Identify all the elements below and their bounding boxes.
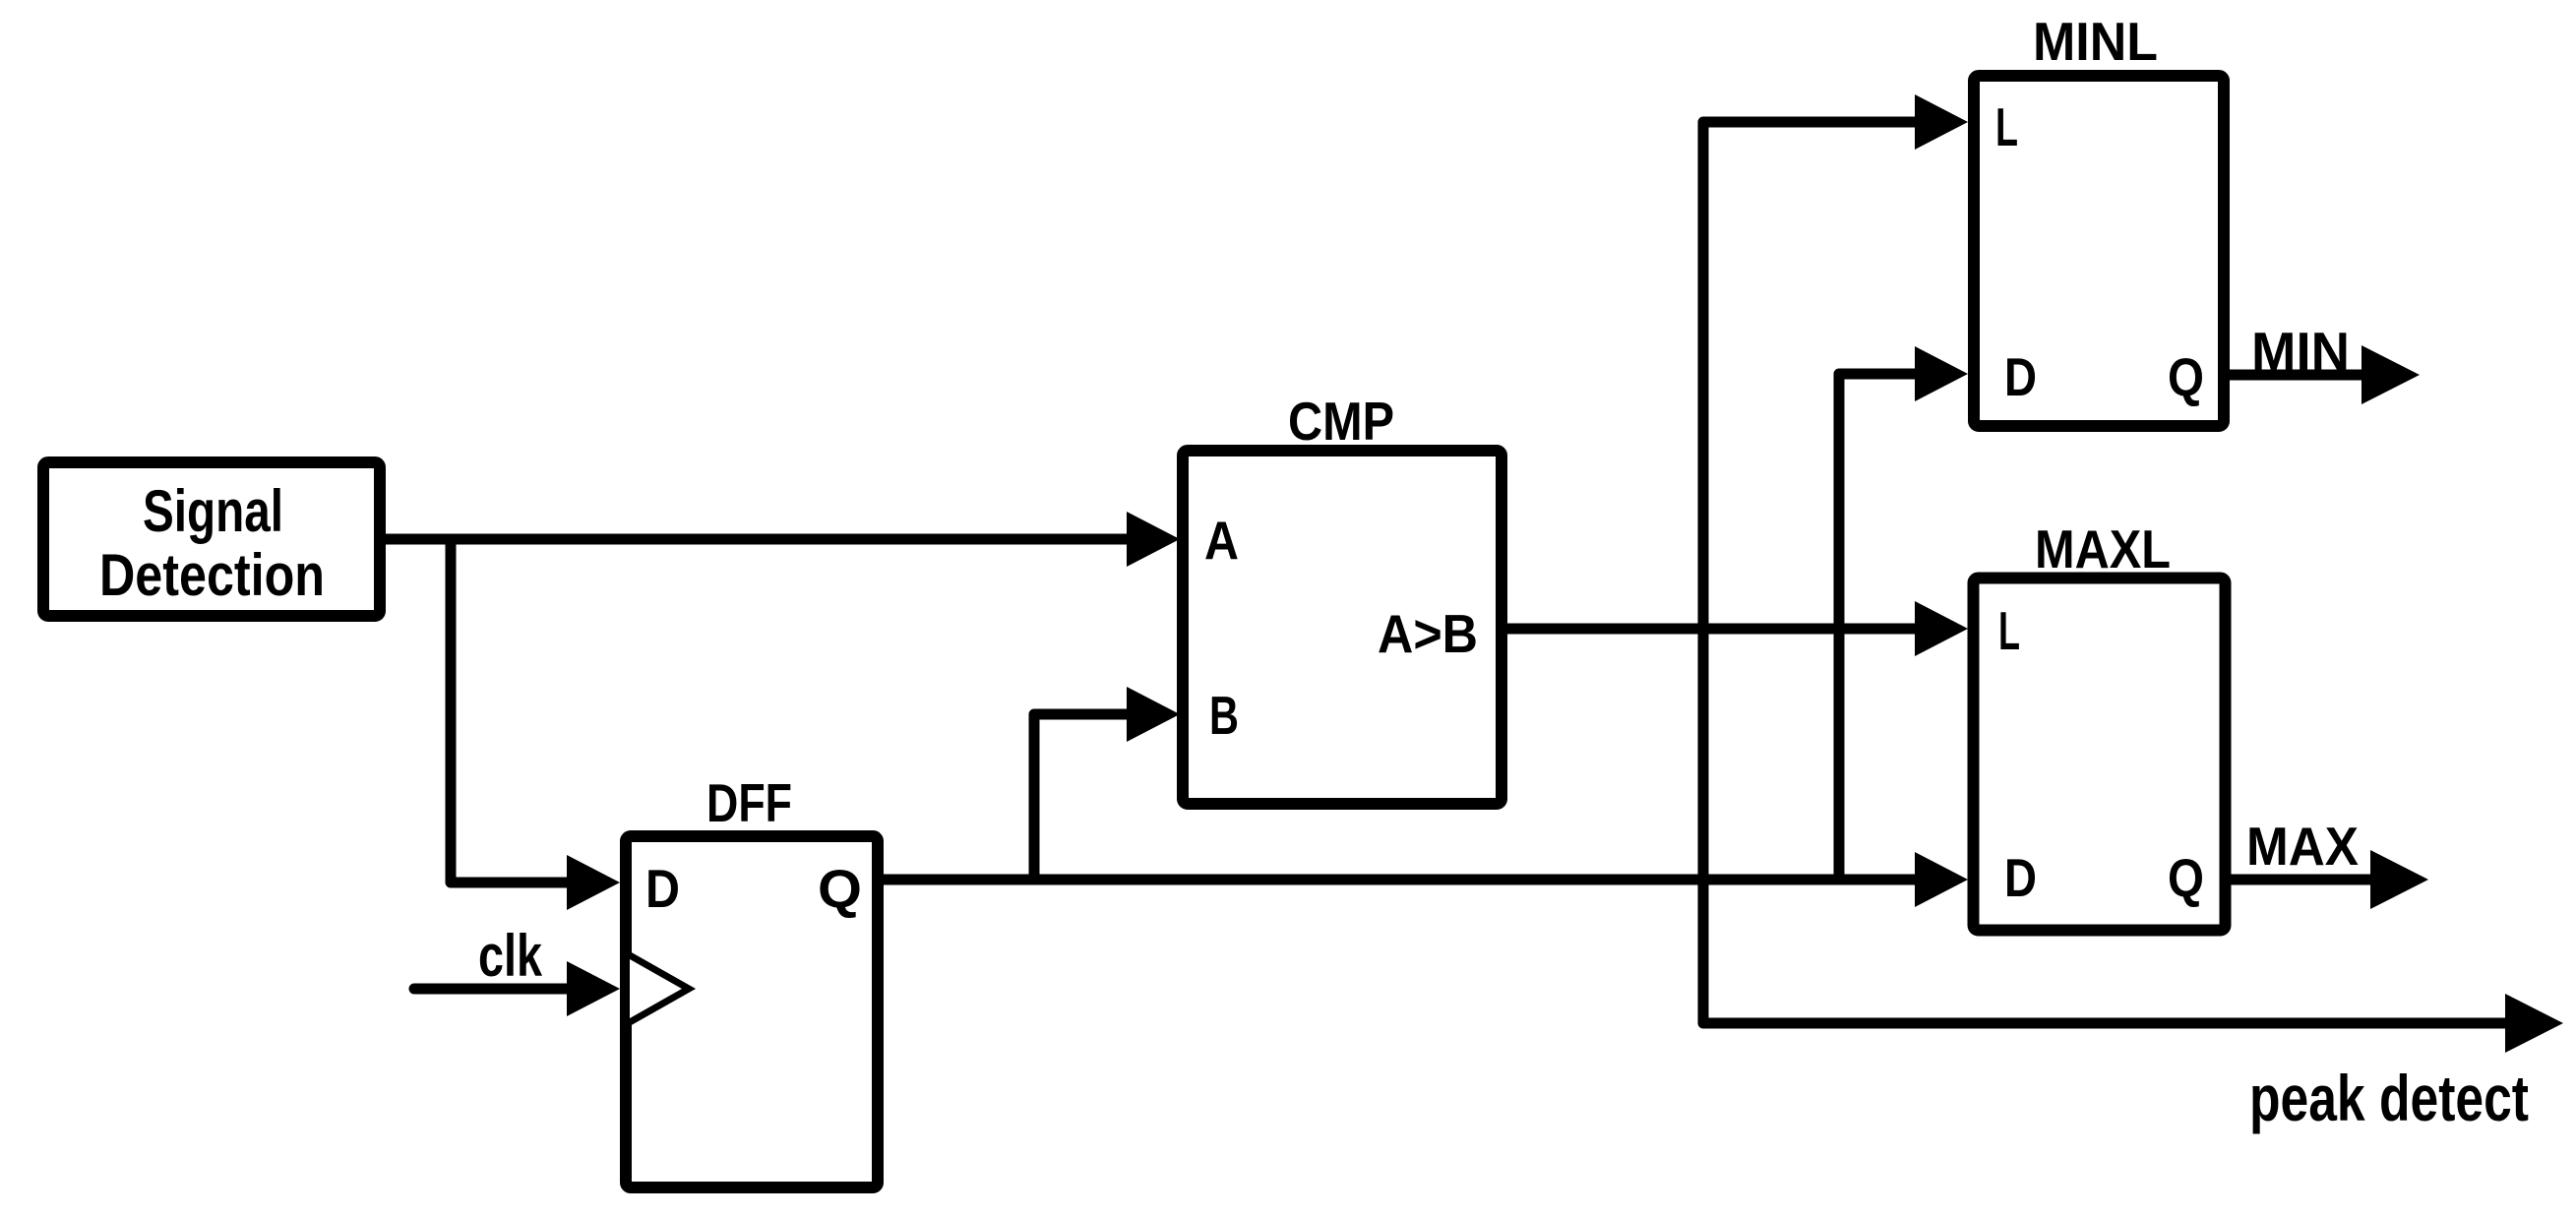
- wire branch down to DFF D: [451, 539, 571, 882]
- svg-text:Q: Q: [2168, 847, 2204, 908]
- wire MAXL Q out MAX: [2225, 875, 2372, 885]
- svg-text:D: D: [2004, 346, 2037, 407]
- arrowhead MIN out: [2361, 345, 2420, 404]
- wire A>B up to MINL L: [1703, 122, 1917, 629]
- latch MINL: [1974, 11, 2224, 426]
- arrowhead peak detect: [2505, 994, 2563, 1053]
- flip-flop DFF: [626, 772, 878, 1187]
- arrowhead into MINL D: [1915, 346, 1968, 401]
- wire branch up to CMP B: [1034, 714, 1127, 880]
- arrowhead into MAXL D: [1915, 852, 1968, 907]
- svg-text:MINL: MINL: [2033, 11, 2158, 72]
- svg-text:peak detect: peak detect: [2249, 1062, 2529, 1134]
- wire clk: [414, 984, 569, 995]
- svg-text:CMP: CMP: [1288, 391, 1394, 452]
- svg-text:clk: clk: [478, 923, 542, 989]
- latch MAXL: [1974, 518, 2226, 931]
- wire Q branch up to MINL D: [1839, 374, 1917, 880]
- svg-text:D: D: [645, 858, 680, 919]
- wire DFF Q to MAXL D: [878, 875, 1917, 885]
- arrowhead MAX out: [2370, 850, 2428, 909]
- block Signal Detection: [43, 462, 380, 616]
- arrowhead into DFF clk: [567, 961, 620, 1016]
- arrowhead into CMP B: [1127, 687, 1180, 742]
- arrowhead into CMP A: [1127, 512, 1180, 567]
- svg-text:Signal: Signal: [143, 478, 283, 544]
- svg-text:Q: Q: [818, 858, 862, 919]
- svg-text:D: D: [2004, 847, 2037, 908]
- svg-text:DFF: DFF: [706, 772, 792, 833]
- svg-text:MIN: MIN: [2251, 321, 2350, 382]
- svg-text:A: A: [1204, 510, 1239, 571]
- wire A>B down to peak detect: [1703, 629, 2507, 1023]
- arrowhead into DFF D: [567, 855, 620, 910]
- clock edge triangle on DFF: [630, 955, 689, 1022]
- wire signal to CMP A: [380, 534, 1128, 545]
- wire MINL Q out MIN: [2224, 370, 2363, 381]
- svg-text:Detection: Detection: [99, 542, 325, 608]
- comparator CMP: [1183, 391, 1502, 804]
- svg-text:B: B: [1209, 685, 1239, 746]
- svg-text:L: L: [1995, 96, 2018, 157]
- svg-text:MAX: MAX: [2246, 816, 2359, 877]
- arrowhead into MINL L: [1915, 94, 1968, 150]
- svg-text:A>B: A>B: [1378, 603, 1478, 664]
- svg-text:Q: Q: [2168, 346, 2204, 407]
- wire CMP A>B to MAXL L: [1502, 624, 1917, 635]
- svg-text:MAXL: MAXL: [2035, 518, 2171, 579]
- svg-text:L: L: [1998, 600, 2020, 661]
- arrowhead into MAXL L: [1915, 601, 1968, 656]
